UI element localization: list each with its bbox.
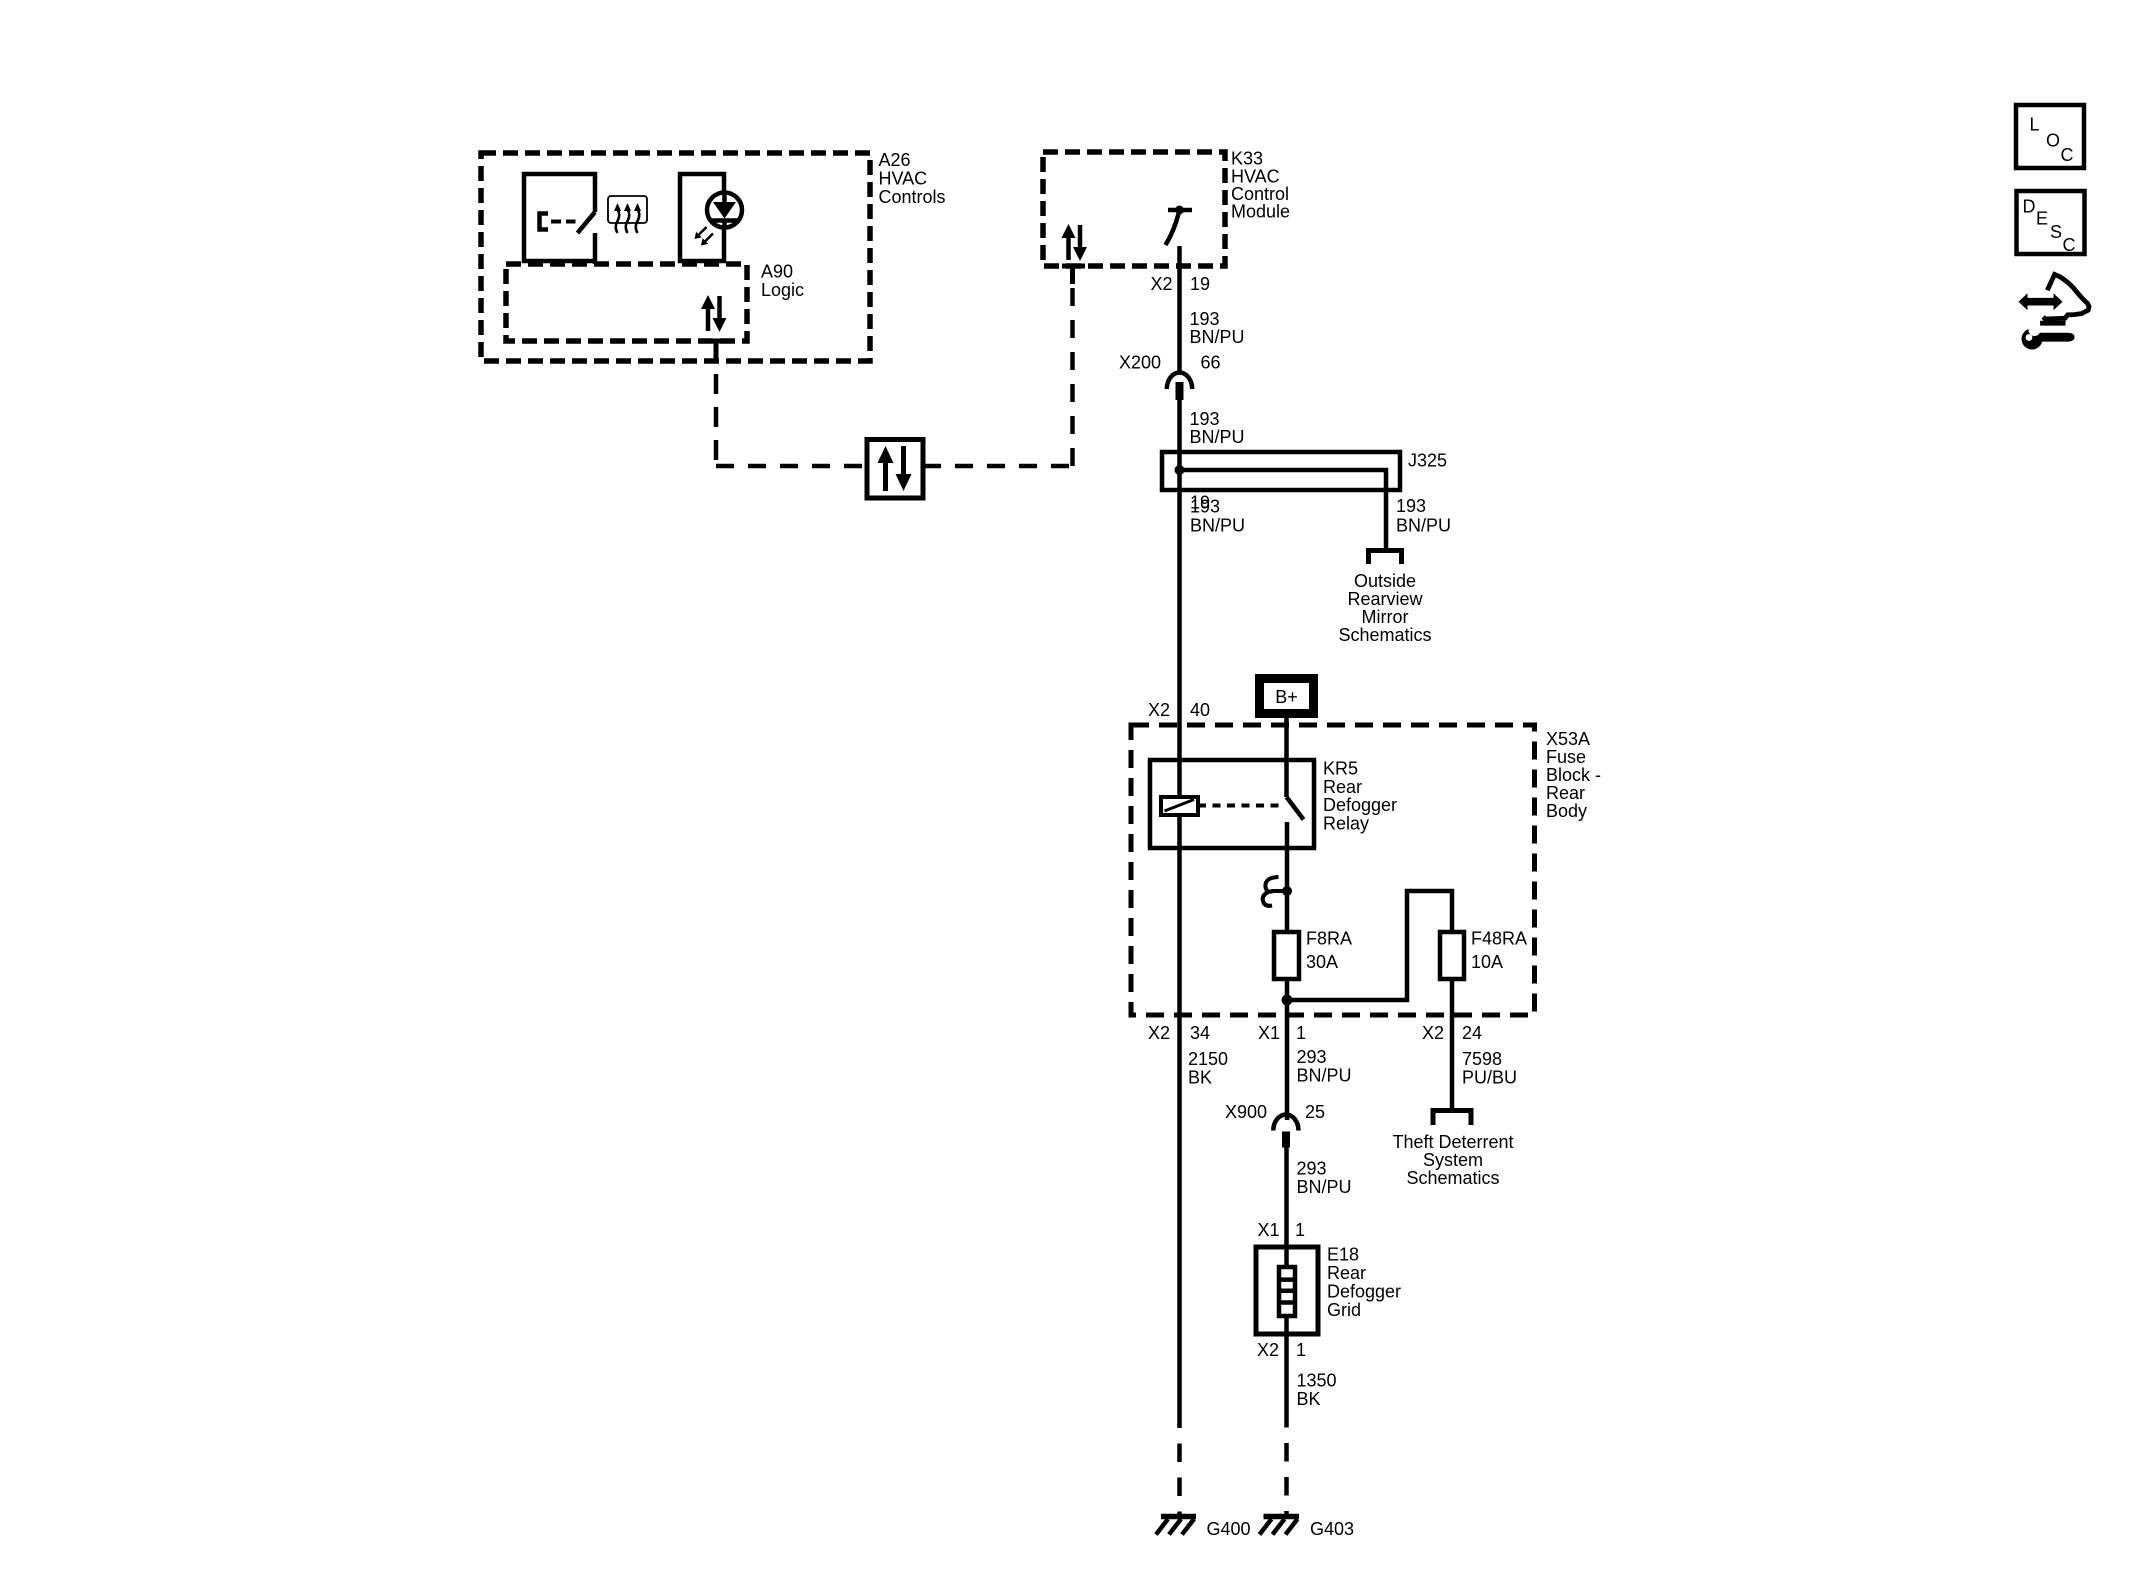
fuse block X53A dashed box (1131, 725, 1535, 1015)
svg-text:Module: Module (1231, 202, 1290, 222)
dashed data wire up to K33 (1070, 284, 1075, 466)
DESC legend box (2017, 191, 2085, 255)
inline connector X900 pin 25 (1225, 1102, 1325, 1148)
repair icon wrench (2022, 324, 2075, 350)
svg-text:BN/PU: BN/PU (1396, 516, 1451, 536)
svg-text:193: 193 (1190, 309, 1220, 329)
A90 serial data arrows (701, 295, 727, 332)
svg-text:30A: 30A (1306, 952, 1338, 972)
LED diode symbol (711, 193, 738, 228)
svg-text:L: L (2030, 115, 2040, 135)
svg-text:293: 293 (1297, 1047, 1327, 1067)
svg-text:Defogger: Defogger (1323, 795, 1397, 815)
svg-text:1: 1 (1295, 1220, 1305, 1240)
svg-text:1: 1 (1296, 1023, 1306, 1043)
battery feed B+ terminal (1260, 679, 1314, 714)
pin labels X2 34 (1148, 1023, 1210, 1043)
svg-text:Block -: Block - (1546, 765, 1601, 785)
svg-text:BN/PU: BN/PU (1190, 327, 1245, 347)
wire X200 to J325 and beyond (1177, 400, 1182, 797)
wire label right branch 193 BN/PU (1396, 496, 1451, 536)
pin labels X2 1 (E18 bottom) (1257, 1340, 1306, 1360)
pin labels X1 1 (1258, 1023, 1306, 1043)
svg-text:Rear: Rear (1327, 1263, 1366, 1283)
dashed data wire horizontal to gateway box (716, 464, 867, 469)
wire relay coil down (ground side) (1177, 815, 1182, 1428)
svg-text:Defogger: Defogger (1327, 1282, 1401, 1302)
ground G403 (1260, 1517, 1355, 1540)
svg-text:19: 19 (1190, 274, 1210, 294)
svg-text:X2: X2 (1148, 1023, 1170, 1043)
svg-text:193: 193 (1396, 496, 1426, 516)
svg-text:C: C (2063, 235, 2076, 255)
svg-text:X2: X2 (1148, 700, 1170, 720)
svg-text:Rearview: Rearview (1347, 589, 1423, 609)
label A26 HVAC Controls (879, 150, 946, 207)
svg-text:BK: BK (1297, 1389, 1321, 1409)
switch pole wire (593, 233, 598, 264)
svg-text:X900: X900 (1225, 1102, 1267, 1122)
svg-text:293: 293 (1297, 1159, 1327, 1179)
svg-text:B+: B+ (1275, 687, 1298, 707)
relay switch contact wire (1285, 822, 1290, 932)
wire B+ down to relay (1284, 718, 1289, 797)
pin labels X1 1 (E18) (1258, 1220, 1306, 1240)
label X53A Fuse Block - Rear Body (1546, 729, 1601, 821)
wire branch to F48RA (1287, 891, 1452, 1000)
relay switch lever (1287, 797, 1304, 820)
svg-text:PU/BU: PU/BU (1462, 1068, 1517, 1088)
switch dashed actuator line (551, 220, 576, 224)
svg-text:X1: X1 (1258, 1023, 1280, 1043)
switch S1 box (defogger switch) (524, 174, 595, 261)
svg-text:Mirror: Mirror (1362, 607, 1409, 627)
svg-text:E: E (2036, 209, 2048, 229)
switch fixed contact E (540, 214, 549, 230)
svg-text:1350: 1350 (1297, 1371, 1337, 1391)
wire E18 down (1284, 1316, 1289, 1428)
inline connector X200 pin 66 (1119, 353, 1221, 401)
wire below F8RA (1285, 979, 1290, 1120)
svg-text:Rear: Rear (1546, 783, 1585, 803)
svg-text:A26: A26 (879, 150, 911, 170)
svg-text:Body: Body (1546, 801, 1587, 821)
svg-text:24: 24 (1462, 1023, 1482, 1043)
ground G400 (1156, 1517, 1251, 1540)
fuse F8RA 30A (1274, 929, 1352, 980)
repair icon panel outline (2043, 274, 2089, 319)
rear defogger grid E18 box (1256, 1247, 1318, 1334)
svg-text:X2: X2 (1422, 1023, 1444, 1043)
HVAC controls A26 dashed box (481, 153, 870, 361)
wire label 7598 PU/BU (1462, 1049, 1517, 1088)
svg-text:BN/PU: BN/PU (1297, 1066, 1352, 1086)
svg-text:Relay: Relay (1323, 814, 1369, 834)
dashed ground wire G403 (1284, 1428, 1289, 1515)
relay coil (1161, 797, 1198, 815)
relay KR5 box (1150, 760, 1314, 848)
svg-text:Outside: Outside (1354, 571, 1416, 591)
svg-text:X53A: X53A (1546, 729, 1590, 749)
K33 pin tick (1062, 266, 1085, 284)
LED emission arrows (695, 227, 714, 246)
svg-text:66: 66 (1201, 353, 1221, 373)
svg-text:25: 25 (1305, 1102, 1325, 1122)
svg-text:A90: A90 (761, 262, 793, 282)
svg-text:1: 1 (1296, 1340, 1306, 1360)
wire below F48RA (1450, 979, 1455, 1111)
svg-text:193: 193 (1190, 409, 1220, 429)
svg-text:Logic: Logic (761, 280, 804, 300)
label A90 Logic (761, 262, 804, 301)
dashed ground wire G400 (1177, 1428, 1182, 1514)
svg-text:Theft Deterrent: Theft Deterrent (1392, 1132, 1513, 1152)
svg-text:X2: X2 (1257, 1340, 1279, 1360)
wire labels below J325 (overlapping 19 / 193) (1190, 493, 1245, 536)
gateway arrows (878, 446, 912, 491)
wire label 193 BN/PU (1190, 309, 1245, 347)
svg-text:10A: 10A (1471, 952, 1503, 972)
svg-text:F8RA: F8RA (1306, 929, 1352, 949)
switch lever (578, 212, 596, 233)
off-page connector to mirror schematics (1369, 551, 1402, 565)
svg-text:BK: BK (1188, 1068, 1212, 1088)
svg-text:O: O (2046, 131, 2060, 151)
LOC legend box (2016, 105, 2084, 168)
svg-text:Fuse: Fuse (1546, 747, 1586, 767)
label KR5 Rear Defogger Relay (1323, 759, 1397, 834)
LED circle (707, 193, 742, 228)
svg-text:E18: E18 (1327, 1245, 1359, 1265)
HVAC control module K33 dashed box (1043, 152, 1225, 266)
pin labels X2 19 (1151, 274, 1211, 294)
wire label 293 BN/PU (1297, 1047, 1352, 1086)
svg-text:System: System (1423, 1150, 1483, 1170)
svg-text:J325: J325 (1408, 451, 1447, 471)
svg-text:BN/PU: BN/PU (1190, 516, 1245, 536)
wire X900 to E18 (1284, 1148, 1289, 1268)
logic module A90 dashed box (506, 264, 747, 341)
off-page connector to theft deterrent (1433, 1111, 1471, 1126)
heater icon (defogger symbol) (608, 196, 647, 233)
wire label 2150 BK (1188, 1049, 1228, 1088)
dashed data wire down from A90 (714, 361, 719, 466)
K33 internal switch (1166, 206, 1193, 246)
label K33 HVAC Control Module (1231, 149, 1290, 222)
wire label 293 BN/PU lower (1297, 1159, 1352, 1198)
wire label 1350 BK (1297, 1371, 1337, 1410)
K33 serial data arrows (1062, 224, 1088, 261)
junction dot below F8RA (1282, 995, 1293, 1006)
svg-text:X2: X2 (1151, 274, 1173, 294)
svg-text:193: 193 (1190, 497, 1220, 517)
splice pack J325 (1162, 452, 1400, 490)
J325 internal bus (1180, 470, 1387, 551)
svg-text:KR5: KR5 (1323, 759, 1358, 779)
svg-text:Controls: Controls (879, 187, 946, 207)
pin labels X2 24 (1422, 1023, 1482, 1043)
svg-text:40: 40 (1190, 700, 1210, 720)
svg-text:Rear: Rear (1323, 777, 1362, 797)
svg-text:Schematics: Schematics (1338, 625, 1431, 645)
serial data gateway box (867, 440, 923, 499)
grid resistor element (1279, 1267, 1295, 1316)
repair icon panel base (2040, 321, 2065, 326)
relay actuator dashed link (1198, 804, 1284, 808)
dashed data wire from gateway to K33 (923, 464, 1073, 469)
pin labels X2 40 (1148, 700, 1210, 720)
svg-text:G400: G400 (1207, 1519, 1251, 1539)
svg-text:2150: 2150 (1188, 1049, 1228, 1069)
repair icon double arrow (2019, 293, 2063, 310)
fuse F48RA 10A (1440, 929, 1527, 980)
clamp symbol on relay output (1263, 877, 1292, 906)
svg-text:BN/PU: BN/PU (1297, 1177, 1352, 1197)
svg-text:BN/PU: BN/PU (1190, 427, 1245, 447)
svg-text:F48RA: F48RA (1471, 929, 1527, 949)
svg-text:X1: X1 (1258, 1220, 1280, 1240)
svg-text:7598: 7598 (1462, 1049, 1502, 1069)
svg-text:K33: K33 (1231, 149, 1263, 169)
label E18 Rear Defogger Grid (1327, 1245, 1401, 1321)
indicator LED box (680, 174, 724, 261)
junction dot J325 (1175, 465, 1185, 475)
wire K33 pin X2-19 down to X200 (1177, 246, 1182, 371)
svg-text:S: S (2050, 222, 2062, 242)
svg-text:34: 34 (1190, 1023, 1210, 1043)
svg-text:G403: G403 (1310, 1519, 1354, 1539)
svg-text:X200: X200 (1119, 353, 1161, 373)
A90 pin tick (703, 341, 730, 361)
svg-text:Grid: Grid (1327, 1300, 1361, 1320)
svg-text:Schematics: Schematics (1406, 1168, 1499, 1188)
svg-text:D: D (2023, 197, 2036, 217)
svg-text:C: C (2061, 145, 2074, 165)
svg-text:HVAC: HVAC (879, 169, 928, 189)
wire label 193 BN/PU above J325 (1190, 409, 1245, 447)
